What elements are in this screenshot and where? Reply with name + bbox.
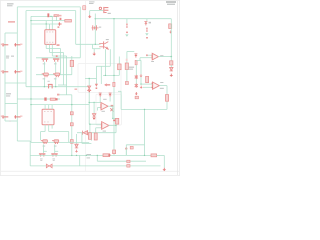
transistor Q10 arms <box>104 42 108 50</box>
sheet right border <box>177 1 179 175</box>
Q8 value <box>40 159 42 162</box>
red dot x126 <box>125 148 127 150</box>
wire U1 pin4 down <box>45 44 47 48</box>
wire opamp2 out <box>159 85 167 87</box>
resistor R4 <box>70 60 73 66</box>
junction y75 a <box>105 75 106 76</box>
diode D11 <box>170 67 173 71</box>
ground G1 <box>88 15 92 18</box>
wire feed y24 <box>31 23 62 25</box>
opamp2 in+ mark <box>152 83 153 84</box>
wire U2 pin6 down <box>51 125 53 129</box>
wire opampB out <box>109 125 117 127</box>
power flag P2 <box>134 54 137 58</box>
junction x89 y102 <box>89 102 90 103</box>
resistor R11 <box>118 64 122 70</box>
wire rail link x79 <box>79 155 81 166</box>
wire IC1 pin3 up <box>51 16 53 29</box>
driver U2 body <box>42 109 54 125</box>
label right mid 1 <box>129 67 135 68</box>
capacitor C3 <box>47 13 49 17</box>
Q10 label <box>106 39 109 40</box>
wire x97 stub <box>97 108 99 111</box>
Q9 value <box>53 159 55 162</box>
junction x31 y20 <box>30 20 31 21</box>
resistor R7 <box>103 154 110 157</box>
wire x91 drop <box>90 133 92 141</box>
label C1 value <box>6 57 9 58</box>
op-amp U4A <box>101 103 108 110</box>
junction rail x86 <box>86 155 87 156</box>
wire y75 bus <box>103 74 119 76</box>
Q9 label <box>52 158 55 161</box>
label right mid 2 <box>129 69 134 70</box>
C9 red label <box>20 116 22 117</box>
transistor Q2 <box>53 58 60 61</box>
wire main left vertical x31 <box>30 16 32 142</box>
component below P2 <box>135 60 137 64</box>
capacitor C5 <box>146 28 147 32</box>
op1 in+ tick <box>146 54 147 56</box>
wire x81 drop <box>81 133 83 144</box>
junction bus4 <box>54 142 55 143</box>
resistor R15 <box>116 118 119 124</box>
wire bus1 drop x80 <box>79 7 81 58</box>
wire U1 pin6 down <box>51 44 53 56</box>
opamp2 in- mark <box>152 87 153 88</box>
U1 pin number 2 <box>49 31 50 34</box>
Q1 label <box>43 62 46 65</box>
Q8 label <box>40 158 43 161</box>
wire step x140 <box>139 58 141 61</box>
transistor Q8 <box>39 153 46 156</box>
C5 mark <box>146 37 147 39</box>
U2 pin number 5 <box>47 121 48 124</box>
star mark y77 <box>135 75 138 79</box>
U3A value <box>151 61 154 62</box>
U2 pin number 1 <box>44 110 45 113</box>
border note line 2 <box>89 3 94 4</box>
wire x116 down <box>115 124 117 132</box>
resistor R3 <box>65 20 72 23</box>
red arrow x171 <box>169 30 172 33</box>
wire bottom-left vertical <box>29 141 31 166</box>
wire R11 top <box>118 57 120 65</box>
wire U1 pin5 down <box>49 44 51 52</box>
junction y16 <box>50 16 51 17</box>
U2 pin number 3 <box>51 110 52 113</box>
wire feed y20 <box>31 20 70 22</box>
wire x89 stub down <box>89 124 91 133</box>
wire route x63 down <box>63 53 65 86</box>
pin arrow B <box>109 93 112 97</box>
wire x105 mid <box>104 49 106 75</box>
net arrow A <box>125 34 128 36</box>
connector J1 <box>103 7 108 13</box>
driver U1 body <box>45 30 56 45</box>
junction x71 y104 <box>71 104 72 105</box>
resistor R13 <box>170 61 173 65</box>
component y146 <box>130 146 133 149</box>
wire line y94 <box>58 94 72 96</box>
wire feed2 y99 b <box>47 98 51 100</box>
wire y44 link <box>76 43 96 45</box>
rail label 1 <box>87 154 92 155</box>
wire rail B drop <box>96 155 98 161</box>
title text line 1 <box>7 3 14 4</box>
wire feed2 y99 c <box>58 98 60 100</box>
wire gnd stub <box>93 49 95 53</box>
junction bus1 <box>44 86 45 87</box>
capacitor C4 <box>126 24 127 28</box>
wire y78 link <box>85 78 97 80</box>
wire IC1 pin1 up <box>45 21 47 30</box>
R12 label mark <box>126 59 128 61</box>
wire opamp1 out <box>158 56 171 58</box>
Q6 label <box>43 145 46 148</box>
label C2 name <box>11 56 14 57</box>
wire R4 top <box>71 56 73 60</box>
wire ladder mid vertical <box>16 7 18 141</box>
C4 mark <box>126 32 127 33</box>
C2 red label <box>20 44 22 45</box>
red mark U4A out <box>111 105 114 107</box>
wire y91 stub <box>118 90 121 92</box>
wire Q1 down <box>43 62 45 73</box>
wire x141 drop <box>140 60 142 84</box>
wire opamp2 in- <box>143 86 153 88</box>
net arrow C <box>140 74 143 77</box>
wire Q10 base b <box>93 48 101 50</box>
wire y155 right <box>157 154 165 156</box>
U1 pin number 4 <box>47 41 48 44</box>
wire R11 bottom <box>118 70 120 76</box>
wire opamp2 in+ <box>141 83 153 85</box>
wire x68 drop <box>68 132 70 143</box>
Q2 label <box>54 62 57 65</box>
red mark y92 <box>135 92 138 95</box>
wire opampA in+ <box>89 102 101 104</box>
Q4 label <box>54 77 57 80</box>
wire ladder right vertical <box>25 11 27 87</box>
red mark y119 <box>113 120 115 122</box>
R7 red tick <box>108 154 110 156</box>
junction x141 <box>140 83 141 84</box>
capacitor C9 <box>14 115 20 118</box>
net arrow D <box>140 86 143 89</box>
U1 power pin mark <box>58 27 60 28</box>
junction x112 y118 <box>112 118 113 119</box>
wire opampA out <box>108 105 113 107</box>
wire y118 link <box>113 117 118 119</box>
wire arrowA down <box>99 97 101 103</box>
wire route y52 <box>50 52 64 54</box>
capacitor C7 <box>14 70 20 73</box>
U3B value <box>160 88 164 89</box>
wire feedback y144 <box>126 144 144 146</box>
diode pair D8 <box>46 164 52 168</box>
junction rail x114 <box>113 18 114 19</box>
junction bus2 <box>55 86 56 87</box>
power flag P1 <box>144 21 147 25</box>
J1 label <box>108 13 111 14</box>
wire Q2 down <box>55 62 57 73</box>
component x114 bottom <box>113 150 116 154</box>
rail label 2 <box>87 157 91 158</box>
wire R12 top <box>126 52 128 64</box>
Q7 label <box>54 145 57 148</box>
ground G4 <box>163 168 167 171</box>
junction opamp1 out <box>171 56 173 58</box>
wire opampB in+ <box>89 123 101 125</box>
sub-sheet box lower <box>96 94 121 125</box>
page frame <box>0 0 179 175</box>
wire y143 link <box>82 142 92 144</box>
net arrow x96 down <box>95 84 98 89</box>
wire arrowB down <box>109 97 111 102</box>
junction x143 <box>144 109 145 110</box>
U1 pin number 3 <box>52 31 53 34</box>
wire step x92 <box>92 44 94 48</box>
junction x31 y104 <box>30 104 31 105</box>
red tick y94 <box>57 94 59 96</box>
wire ladder tap y98 <box>17 98 31 100</box>
sheet divider <box>85 1 87 171</box>
wire x101 mid <box>100 66 102 84</box>
wire top rail y18 <box>95 18 171 20</box>
U1 pin number 6 <box>52 41 53 44</box>
transistor Q6 <box>41 140 48 144</box>
wire route y56 <box>52 55 66 57</box>
wire U2 pin2 up <box>48 105 50 110</box>
tick mark y121 <box>9 121 11 122</box>
transistor Q5 <box>48 84 53 89</box>
component rail C mark <box>127 165 130 168</box>
wire x126 stub <box>125 148 127 155</box>
C7 red label <box>20 71 22 72</box>
junction x94 <box>93 102 94 103</box>
junction x89 y124 <box>89 124 90 125</box>
resistor R19 <box>146 76 149 82</box>
diode D10 <box>75 144 78 148</box>
wire feedback x143 down <box>144 109 146 155</box>
wire route x60 down <box>60 49 62 75</box>
capacitor C11 <box>44 98 46 101</box>
wire x95 vertical <box>94 14 96 45</box>
U2 pin number 2 <box>47 110 48 113</box>
wire ladder rung y121 <box>5 120 17 122</box>
wire opamp1 in- <box>140 57 152 59</box>
wire x114 long vertical <box>113 19 115 156</box>
feedback mark U4A <box>110 108 113 112</box>
battery BT1 <box>92 25 99 30</box>
diode D9 <box>83 131 88 135</box>
transistor Q4 <box>53 73 60 77</box>
P1 label <box>149 22 151 24</box>
U3A label <box>160 55 163 56</box>
wire connector gnd drop <box>89 11 91 15</box>
resistor R18 <box>151 154 157 157</box>
wire ladder rung y83 <box>5 82 26 84</box>
diode D12 <box>92 114 95 118</box>
wire feedback drop <box>166 86 168 110</box>
red arrow x76 <box>75 150 78 153</box>
red label y21 <box>8 21 15 23</box>
component x171 top <box>169 24 172 29</box>
U4A label <box>102 111 105 112</box>
component x71 a <box>70 112 73 115</box>
capacitor C2 <box>14 43 20 46</box>
wire ladder rung y103 <box>5 103 17 105</box>
wire rail B y161 <box>97 160 146 162</box>
label mid-left 1 <box>6 93 11 94</box>
wire route y48 <box>46 48 60 50</box>
wire U2 pin4 down <box>44 125 46 132</box>
junction rail x76 <box>76 155 77 156</box>
transistor Q7 <box>52 140 59 144</box>
junction y75 b <box>113 75 114 76</box>
wire y132 long <box>77 132 116 134</box>
wire bridge bus y142 <box>31 141 89 143</box>
top-right text line 1 <box>166 1 176 3</box>
resistor R14 <box>165 95 168 102</box>
junction rail x97 <box>97 155 98 156</box>
label C1 name <box>6 56 9 57</box>
wire rail C y166 <box>30 165 160 167</box>
junction bus3 <box>43 142 44 143</box>
wire Q7 down <box>54 144 56 153</box>
pin arrow A <box>99 93 102 97</box>
junction x95 rail <box>95 18 96 19</box>
capacitor C6 <box>2 70 8 73</box>
U2 pin number 4 <box>44 121 45 124</box>
C1 red label <box>1 44 4 45</box>
top-right text line 2 <box>167 4 175 5</box>
junction x89 y78 <box>89 78 90 79</box>
wire feed y16 <box>31 15 57 17</box>
U4A top label <box>103 99 106 100</box>
wire y51 link <box>127 51 134 53</box>
transistor Q9 <box>51 153 58 156</box>
wire Q4 down <box>55 78 57 87</box>
wire R12 bottom <box>126 70 128 82</box>
wire bridge bus y86 <box>26 86 89 88</box>
sheet bottom border <box>1 170 179 172</box>
component x114 y82 <box>113 82 115 86</box>
wire stub y151 a <box>43 150 46 152</box>
wire ladder bottom out <box>17 140 30 142</box>
wire sym2 stub <box>146 19 148 21</box>
wire x171 down b <box>170 65 172 67</box>
component x71 c <box>70 140 73 144</box>
wire x136 mid <box>135 65 137 86</box>
star mark y85 <box>135 84 138 88</box>
component x126 y82 <box>125 82 128 85</box>
wire R4 bottom <box>71 67 73 75</box>
Q3 label <box>43 77 46 80</box>
wire route x66 down <box>66 56 68 95</box>
red label x74 <box>75 89 78 90</box>
wire sym1 stub <box>126 19 128 24</box>
wire x76 drop <box>76 134 78 144</box>
capacitor C1 <box>2 43 8 46</box>
ground G2 <box>92 52 96 55</box>
net tie mark <box>56 55 58 56</box>
wire feed2 y99 a <box>31 98 44 100</box>
wire opampB in- <box>96 127 102 129</box>
U3B label <box>160 82 163 83</box>
wire x89 center vertical <box>88 79 90 125</box>
wire gate bus y74 <box>36 74 72 76</box>
junction x144 rail <box>144 155 145 156</box>
wire x94 down <box>93 103 95 114</box>
wire link x56 <box>56 16 58 20</box>
title text line 2 <box>7 5 13 6</box>
wire y60 link <box>137 59 142 61</box>
wire route y131 b <box>49 131 69 133</box>
wire Q6 down <box>42 144 44 153</box>
diode pair x89 <box>88 86 91 91</box>
wire top fet rail y57 <box>36 57 80 59</box>
resistor R16 <box>94 133 97 140</box>
wire opamp1 in+ <box>148 54 153 56</box>
R6 red tick <box>56 98 58 100</box>
wire x40 down <box>40 132 42 141</box>
transistor Q10 bar <box>99 41 104 48</box>
wire bus2 drop x75 <box>75 11 77 45</box>
wire IC1 pin2 up <box>49 24 51 30</box>
wire Q10 base a <box>95 43 100 45</box>
wire U2 pin3 up <box>51 105 53 110</box>
sub-sheet box upper <box>78 64 121 93</box>
BT1 label <box>99 27 101 28</box>
junction x95 y44 <box>95 44 96 45</box>
component on bus1 <box>83 6 86 10</box>
junction rail x71 <box>71 155 72 156</box>
connector pin circle <box>99 7 101 9</box>
transistor Q3 <box>42 73 49 77</box>
red mark x60 <box>60 18 62 20</box>
junction opampB out <box>115 125 116 126</box>
red label y44 <box>57 44 60 46</box>
wire connector left <box>90 10 104 12</box>
wire line y85 <box>58 84 67 86</box>
wire rail A y155 <box>30 154 160 156</box>
wire x110 mid <box>109 49 111 66</box>
red label y15 <box>57 15 62 17</box>
resistor R2 <box>54 15 59 17</box>
op-amp U3A <box>152 53 158 60</box>
wire feed2 y104 <box>31 104 89 106</box>
op-amp U4B <box>102 122 109 130</box>
wire feedback x121 up <box>120 91 122 109</box>
diode D12 tail <box>93 118 95 119</box>
border note line 1 <box>89 1 95 2</box>
U4B label <box>103 131 106 132</box>
component x71 b <box>70 123 73 126</box>
resistor R17 <box>88 133 91 140</box>
wire U2 pin1 up <box>44 105 46 110</box>
wire top bus 1 <box>17 6 80 8</box>
capacitor C10 <box>58 22 61 25</box>
wire opampA in- <box>98 107 102 109</box>
wire x126 to rail <box>125 145 127 156</box>
op-amp U3B <box>153 82 160 89</box>
C8 red label <box>1 116 4 117</box>
wire x164 down <box>163 155 165 167</box>
wire x171 down a <box>170 57 172 62</box>
resistor R6 <box>50 98 55 100</box>
